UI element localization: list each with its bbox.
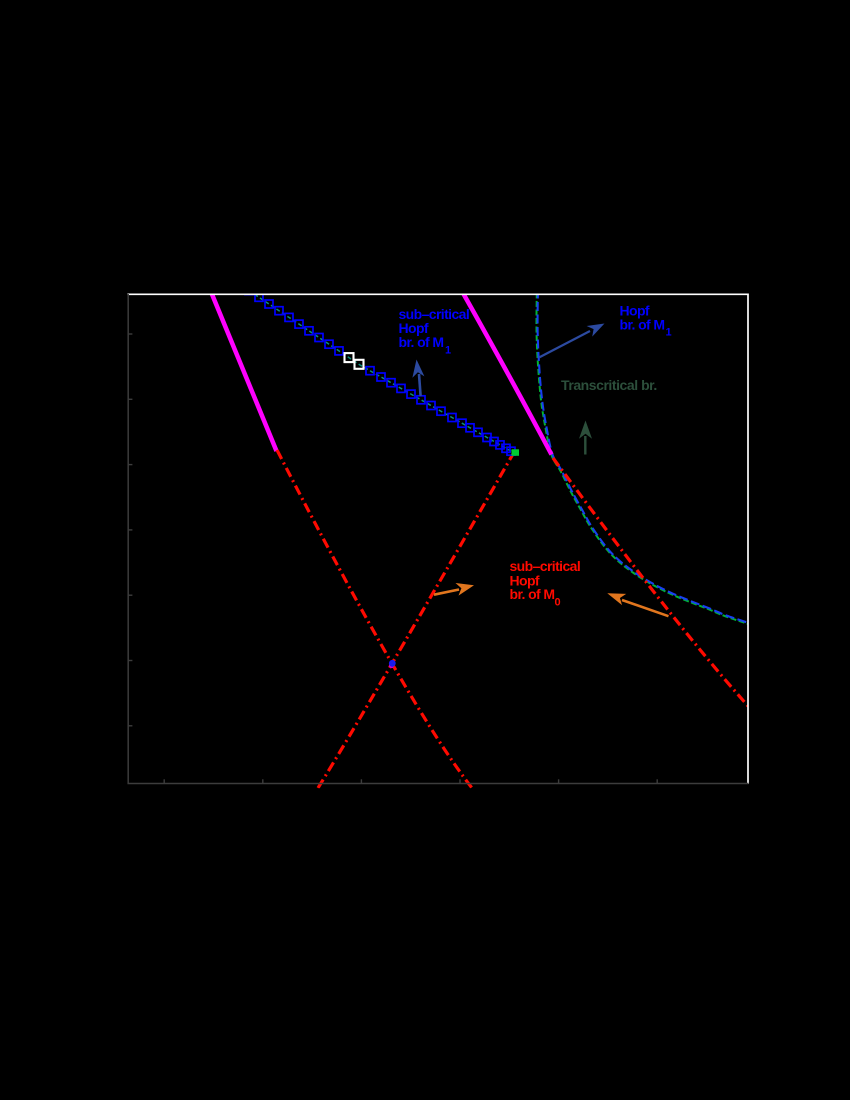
svg-text:br. of M: br. of M [399, 334, 444, 350]
svg-text:Transcritical br.: Transcritical br. [561, 377, 657, 393]
svg-text:1: 1 [666, 327, 672, 339]
svg-text:0: 0 [555, 597, 561, 609]
svg-text:br. of M: br. of M [620, 317, 665, 333]
svg-text:1: 1 [445, 345, 451, 357]
svg-text:br. of M: br. of M [510, 586, 555, 602]
